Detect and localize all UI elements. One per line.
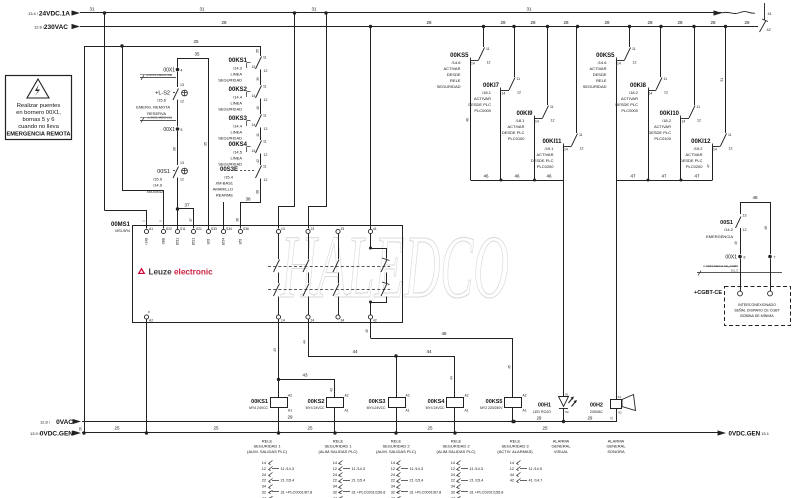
svg-text:00KI12: 00KI12	[691, 139, 711, 145]
svg-text:11: 11	[517, 77, 521, 81]
svg-text:AMARILLO: AMARILLO	[213, 187, 233, 192]
svg-text:LED ROJO: LED ROJO	[533, 410, 551, 414]
svg-text:21: 21	[610, 416, 614, 420]
svg-text:-0BB: -0BB	[162, 238, 166, 245]
svg-text:SEGURIDAD 1: SEGURIDAD 1	[253, 444, 281, 449]
svg-text:DESDE PLC: DESDE PLC	[680, 158, 703, 163]
svg-text:00KS5: 00KS5	[596, 53, 615, 59]
svg-text:LINEA: LINEA	[230, 72, 242, 77]
svg-text:/19.2: /19.2	[694, 146, 704, 151]
svg-text:12: 12	[262, 467, 266, 471]
svg-text:35: 35	[204, 142, 208, 146]
svg-text:w-00X1-MECH CE_CGBT: w-00X1-MECH CE_CGBT	[703, 264, 738, 268]
svg-text:39: 39	[256, 77, 260, 81]
svg-text:34: 34	[451, 485, 455, 489]
svg-text:ACTIVAR: ACTIVAR	[474, 96, 491, 101]
svg-text:51: 51	[720, 78, 724, 82]
svg-text:34: 34	[341, 319, 345, 323]
svg-text:A1: A1	[288, 409, 292, 413]
svg-text:en bornero 00X1,: en bornero 00X1,	[16, 110, 61, 116]
svg-text:34: 34	[333, 485, 337, 489]
svg-text:44: 44	[510, 473, 514, 477]
svg-text:SEGURIDAD: SEGURIDAD	[218, 162, 242, 167]
svg-text:B521: B521	[192, 238, 196, 246]
svg-text:31 +PLC0201/156.8: 31 +PLC0201/156.8	[470, 491, 504, 495]
svg-text:00MS1: 00MS1	[111, 222, 131, 228]
svg-text:PLC0100: PLC0100	[508, 136, 525, 141]
svg-text:RELE: RELE	[596, 78, 607, 83]
svg-text:w-00X1-MECH.WE: w-00X1-MECH.WE	[146, 73, 172, 77]
svg-text:5: 5	[181, 128, 183, 132]
svg-text:11: 11	[486, 47, 490, 51]
svg-text:46: 46	[466, 118, 470, 122]
svg-text:00KS5: 00KS5	[486, 399, 503, 405]
svg-text:31: 31	[526, 7, 532, 12]
svg-text:00KS4: 00KS4	[229, 142, 248, 148]
svg-text:14: 14	[471, 62, 475, 66]
svg-text:28: 28	[221, 20, 227, 25]
svg-text:12: 12	[633, 61, 637, 65]
svg-text:35: 35	[194, 52, 200, 57]
svg-text:DESDE PLC: DESDE PLC	[615, 102, 638, 107]
svg-text:EMERGENCIA: EMERGENCIA	[706, 234, 733, 239]
svg-text:S33: S33	[211, 227, 217, 231]
svg-text:REARME: REARME	[216, 193, 233, 198]
svg-text:00KS3: 00KS3	[229, 116, 248, 122]
svg-text:11: 11	[697, 105, 701, 109]
svg-text:11: 11	[263, 56, 267, 60]
svg-text:12: 12	[729, 147, 733, 151]
svg-text:47: 47	[707, 164, 711, 168]
svg-text:MY4 24VCC: MY4 24VCC	[249, 406, 268, 410]
svg-text:EMERG. REMOTA: EMERG. REMOTA	[136, 105, 170, 110]
svg-text:RELE: RELE	[450, 78, 461, 83]
svg-text:00KS2: 00KS2	[308, 399, 325, 405]
svg-text:11 /14.3: 11 /14.3	[281, 467, 294, 471]
svg-text:31: 31	[89, 7, 95, 12]
svg-text:41: 41	[373, 227, 377, 231]
svg-text:A2: A2	[149, 319, 153, 323]
svg-text:(ALIM.SALIDAS PLC): (ALIM.SALIDAS PLC)	[437, 449, 477, 454]
svg-text:24: 24	[262, 473, 266, 477]
svg-text:A2: A2	[345, 394, 349, 398]
svg-text:00KS1: 00KS1	[251, 399, 268, 405]
svg-text:S22: S22	[166, 227, 172, 231]
svg-text:28: 28	[677, 20, 683, 25]
svg-text:/14.6: /14.6	[598, 60, 608, 65]
svg-text:45: 45	[365, 329, 369, 333]
svg-text:13: 13	[743, 214, 747, 218]
svg-text:31 +PLC0001/67.8: 31 +PLC0001/67.8	[281, 491, 313, 495]
svg-text:00X1: 00X1	[725, 255, 737, 261]
svg-text:EMERGENCIA REMOTA: EMERGENCIA REMOTA	[7, 132, 71, 138]
svg-text:11: 11	[632, 47, 636, 51]
svg-text:12: 12	[180, 178, 184, 182]
svg-text:ACTIVAR: ACTIVAR	[589, 66, 606, 71]
svg-text:48: 48	[764, 226, 768, 230]
svg-text:/14.2: /14.2	[724, 227, 734, 232]
svg-text:SEGURIDAD: SEGURIDAD	[218, 136, 242, 141]
svg-text:ACTIVAR: ACTIVAR	[443, 66, 460, 71]
svg-text:14: 14	[391, 461, 395, 465]
svg-text:31: 31	[311, 7, 317, 12]
svg-text:/18.2: /18.2	[662, 118, 672, 123]
svg-text:14: 14	[617, 62, 621, 66]
svg-text:00H1: 00H1	[538, 403, 551, 409]
svg-text:24VDC.1A: 24VDC.1A	[39, 11, 70, 18]
svg-text:45: 45	[441, 331, 447, 336]
svg-text:ACTIVAR: ACTIVAR	[654, 124, 671, 129]
svg-text:12: 12	[510, 467, 514, 471]
svg-text:13: 13	[180, 161, 184, 165]
svg-text:00X1: 00X1	[163, 127, 175, 133]
svg-text:bornas 5 y 6: bornas 5 y 6	[23, 117, 55, 123]
svg-text:MY4 24VCC: MY4 24VCC	[426, 406, 445, 410]
svg-text:43: 43	[330, 388, 334, 392]
svg-text:38: 38	[256, 190, 260, 194]
svg-text:28: 28	[500, 20, 506, 25]
svg-text:BOBINA DE MÍNIMA: BOBINA DE MÍNIMA	[740, 314, 774, 318]
svg-text:PLC0200: PLC0200	[686, 164, 703, 169]
svg-text:VISUAL: VISUAL	[554, 449, 569, 454]
svg-text:LINEA: LINEA	[230, 130, 242, 135]
svg-text:21 /15.4: 21 /15.4	[281, 479, 295, 483]
svg-text:A2: A2	[288, 394, 292, 398]
svg-text:MY4 24VCC: MY4 24VCC	[306, 406, 325, 410]
svg-text:25: 25	[307, 426, 313, 431]
svg-text:cuando no lleva: cuando no lleva	[18, 124, 59, 130]
svg-text:43: 43	[273, 348, 277, 352]
svg-text:33: 33	[341, 227, 345, 231]
svg-text:11 /14.3: 11 /14.3	[470, 467, 483, 471]
svg-text:0VAC: 0VAC	[56, 419, 73, 426]
svg-text:00KS3: 00KS3	[369, 399, 386, 405]
svg-text:+L-S2: +L-S2	[155, 91, 170, 97]
svg-text:00KI8: 00KI8	[630, 83, 647, 89]
svg-text:44: 44	[450, 376, 454, 380]
svg-text:12: 12	[264, 127, 268, 131]
svg-text:LINEA: LINEA	[230, 101, 242, 106]
svg-text:230VAC: 230VAC	[44, 24, 68, 31]
svg-text:14: 14	[535, 120, 539, 124]
svg-text:00KS2: 00KS2	[229, 87, 248, 93]
svg-text:12.8 /: 12.8 /	[40, 420, 51, 425]
svg-text:14: 14	[564, 148, 568, 152]
svg-text:PLC0000: PLC0000	[474, 108, 491, 113]
svg-text:/14.4: /14.4	[233, 124, 243, 129]
svg-text:11: 11	[579, 133, 583, 137]
svg-text:24: 24	[333, 473, 337, 477]
svg-text:X2: X2	[618, 411, 622, 415]
svg-text:/15.9: /15.9	[153, 177, 163, 182]
svg-text:25: 25	[213, 426, 219, 431]
svg-text:13: 13	[180, 83, 184, 87]
svg-text:14: 14	[713, 148, 717, 152]
svg-text:SEGURIDAD: SEGURIDAD	[437, 84, 461, 89]
svg-text:32: 32	[391, 491, 395, 495]
svg-text:electronic: electronic	[174, 268, 213, 277]
svg-text:00KS1: 00KS1	[229, 58, 248, 64]
svg-text:22: 22	[333, 479, 337, 483]
svg-text:SEGURIDAD 2: SEGURIDAD 2	[382, 444, 410, 449]
svg-text:13: 13	[281, 227, 285, 231]
svg-text:A2: A2	[406, 394, 410, 398]
svg-text:42: 42	[256, 159, 260, 163]
svg-text:26: 26	[79, 427, 83, 431]
svg-text:A1: A1	[345, 409, 349, 413]
svg-text:12: 12	[264, 98, 268, 102]
svg-text:41 /14.7: 41 /14.7	[529, 479, 543, 483]
svg-text:DESDE: DESDE	[593, 72, 607, 77]
svg-text:42: 42	[373, 319, 377, 323]
svg-text:28: 28	[710, 20, 716, 25]
svg-text:11: 11	[728, 133, 732, 137]
svg-text:A1: A1	[523, 409, 527, 413]
svg-text:14: 14	[333, 461, 337, 465]
svg-text:12: 12	[580, 147, 584, 151]
svg-text:12: 12	[743, 228, 747, 232]
svg-text:00KI7: 00KI7	[483, 83, 500, 89]
svg-text:/19.1: /19.1	[545, 146, 555, 151]
svg-text:/14.3: /14.3	[233, 66, 243, 71]
svg-text:11: 11	[263, 165, 267, 169]
svg-text:29: 29	[588, 416, 593, 421]
svg-text:PLC0000: PLC0000	[621, 108, 638, 113]
svg-text:HALEDCO: HALEDCO	[280, 218, 509, 317]
svg-text:/14.9: /14.9	[153, 183, 163, 188]
svg-text:Realizar puentes: Realizar puentes	[17, 103, 61, 109]
svg-text:32: 32	[333, 491, 337, 495]
svg-text:00KI10: 00KI10	[660, 111, 680, 117]
svg-text:46: 46	[546, 174, 552, 179]
svg-text:12: 12	[391, 467, 395, 471]
svg-text:42: 42	[767, 28, 771, 32]
svg-text:14: 14	[510, 461, 514, 465]
svg-text:12: 12	[697, 119, 701, 123]
svg-text:SEGURIDAD: SEGURIDAD	[583, 84, 607, 89]
svg-text:44: 44	[426, 349, 432, 354]
svg-text:12: 12	[333, 467, 337, 471]
svg-text:14: 14	[502, 92, 506, 96]
svg-text:+CGBT-CE: +CGBT-CE	[694, 290, 722, 296]
svg-text:24: 24	[451, 473, 455, 477]
svg-text:25: 25	[114, 426, 120, 431]
svg-text:GENERAL: GENERAL	[551, 444, 571, 449]
svg-text:46: 46	[483, 174, 489, 179]
svg-text:37: 37	[184, 203, 190, 208]
svg-text:44: 44	[352, 349, 358, 354]
svg-text:37: 37	[189, 218, 193, 222]
svg-text:/15.4: /15.4	[224, 175, 234, 180]
svg-text:PLC0100: PLC0100	[654, 136, 671, 141]
svg-text:12: 12	[487, 61, 491, 65]
svg-text:LINEA: LINEA	[230, 156, 242, 161]
svg-text:24: 24	[311, 319, 315, 323]
svg-text:28: 28	[604, 20, 610, 25]
svg-text:SONORA: SONORA	[607, 449, 625, 454]
svg-text:B33: B33	[207, 238, 211, 244]
svg-text:38: 38	[236, 218, 240, 222]
svg-text:22: 22	[262, 479, 266, 483]
svg-text:0VDC.GEN: 0VDC.GEN	[40, 431, 74, 438]
svg-text:B53: B53	[239, 238, 243, 244]
svg-text:48: 48	[752, 195, 758, 200]
svg-text:22: 22	[391, 479, 395, 483]
svg-text:S36: S36	[243, 227, 249, 231]
svg-text:14: 14	[281, 319, 285, 323]
svg-text:11: 11	[550, 105, 554, 109]
svg-text:Leuze: Leuze	[149, 268, 173, 277]
svg-text:(ACTIV. ALARMAS): (ACTIV. ALARMAS)	[497, 449, 533, 454]
svg-text:13.4 /: 13.4 /	[28, 11, 39, 16]
svg-text:(ALIM. SALIDAS PLC): (ALIM. SALIDAS PLC)	[247, 449, 288, 454]
svg-text:35: 35	[256, 49, 260, 53]
svg-text:/14.6: /14.6	[452, 60, 462, 65]
svg-text:43: 43	[302, 373, 308, 378]
svg-text:28: 28	[744, 20, 750, 25]
svg-text:14: 14	[252, 149, 256, 153]
svg-text:11 /14.5: 11 /14.5	[529, 467, 542, 471]
svg-text:4: 4	[181, 69, 183, 73]
svg-text:0VDC.GEN: 0VDC.GEN	[729, 431, 761, 438]
svg-text:32: 32	[451, 491, 455, 495]
svg-text:12: 12	[517, 91, 521, 95]
svg-text:GENERAL: GENERAL	[606, 444, 626, 449]
svg-text:49: 49	[734, 241, 738, 245]
svg-text:/18.1: /18.1	[516, 118, 526, 123]
svg-text:/ 15.1: / 15.1	[759, 431, 770, 436]
svg-text:S34: S34	[226, 227, 232, 231]
svg-text:00S3E: 00S3E	[220, 167, 238, 173]
svg-text:(ALIM.SALIDAS PLC): (ALIM.SALIDAS PLC)	[319, 449, 359, 454]
svg-text:A1: A1	[406, 409, 410, 413]
svg-text:A2: A2	[523, 394, 527, 398]
svg-text:31: 31	[199, 7, 205, 12]
svg-text:B534: B534	[222, 238, 226, 246]
svg-text:A2: A2	[465, 394, 469, 398]
svg-text:14: 14	[682, 120, 686, 124]
svg-text:12: 12	[551, 119, 555, 123]
svg-text:12: 12	[264, 153, 268, 157]
svg-text:ACTIVAR: ACTIVAR	[507, 124, 524, 129]
svg-text:S21: S21	[196, 227, 202, 231]
svg-text:14: 14	[252, 65, 256, 69]
svg-text:40: 40	[256, 106, 260, 110]
svg-text:42: 42	[510, 479, 514, 483]
svg-text:/18.1: /18.1	[482, 90, 492, 95]
svg-text:25: 25	[542, 426, 548, 431]
svg-text:12: 12	[264, 178, 268, 182]
svg-text:13.9 /: 13.9 /	[30, 431, 41, 436]
svg-text:45: 45	[508, 365, 512, 369]
svg-text:34: 34	[262, 485, 266, 489]
svg-text:11: 11	[263, 85, 267, 89]
svg-text:/18.2: /18.2	[629, 90, 639, 95]
svg-text:34: 34	[391, 485, 395, 489]
svg-text:INTERCONEXIONADO: INTERCONEXIONADO	[738, 303, 776, 307]
svg-text:ACTIVAR: ACTIVAR	[621, 96, 638, 101]
svg-text:44: 44	[303, 340, 307, 344]
svg-text:DESDE PLC: DESDE PLC	[502, 130, 525, 135]
svg-text:31 +PLC0001/67.8: 31 +PLC0001/67.8	[410, 491, 442, 495]
svg-text:14: 14	[252, 123, 256, 127]
svg-text:XM-BAS1: XM-BAS1	[215, 181, 233, 186]
svg-text:47: 47	[661, 174, 667, 179]
svg-text:X1: X1	[565, 393, 569, 397]
svg-text:00KS5: 00KS5	[450, 53, 469, 59]
svg-text:24: 24	[391, 473, 395, 477]
svg-text:DESDE PLC: DESDE PLC	[648, 130, 671, 135]
svg-text:SEÑAL DISPARO CE CGBT: SEÑAL DISPARO CE CGBT	[734, 308, 780, 313]
svg-text:25: 25	[193, 39, 199, 44]
svg-text:SEGURIDAD 1: SEGURIDAD 1	[324, 444, 352, 449]
svg-text:41: 41	[768, 12, 772, 16]
svg-text:PLC0200: PLC0200	[537, 164, 554, 169]
svg-text:36: 36	[173, 147, 177, 151]
svg-text:X1: X1	[618, 395, 622, 399]
svg-text:28: 28	[563, 20, 569, 25]
svg-text:25: 25	[427, 426, 433, 431]
svg-text:7: 7	[774, 256, 776, 260]
svg-text:230VAC: 230VAC	[590, 410, 604, 414]
svg-text:ACTIVAR: ACTIVAR	[536, 152, 553, 157]
svg-text:29: 29	[287, 415, 293, 420]
svg-text:11: 11	[263, 114, 267, 118]
svg-text:00S1: 00S1	[157, 169, 170, 175]
svg-text:23: 23	[311, 227, 315, 231]
svg-text:38: 38	[245, 197, 251, 202]
svg-text:(ALIM. SALIDAS PLC): (ALIM. SALIDAS PLC)	[376, 449, 417, 454]
svg-text:21 /15.4: 21 /15.4	[352, 479, 366, 483]
svg-text:31 +PLC0201/156.8: 31 +PLC0201/156.8	[352, 491, 386, 495]
svg-text:MSI-SR4: MSI-SR4	[115, 229, 130, 233]
svg-text:ACTIVAR: ACTIVAR	[685, 152, 702, 157]
svg-text:A1: A1	[149, 227, 153, 231]
svg-text:14: 14	[649, 92, 653, 96]
svg-text:47: 47	[630, 174, 636, 179]
svg-text:00KS4: 00KS4	[428, 399, 446, 405]
svg-text:12: 12	[264, 69, 268, 73]
svg-text:A1: A1	[465, 409, 469, 413]
svg-text:21 /15.4: 21 /15.4	[470, 479, 484, 483]
svg-text:00KI9: 00KI9	[516, 111, 533, 117]
svg-text:14: 14	[252, 94, 256, 98]
svg-text:B511: B511	[176, 238, 180, 245]
svg-text:11 /14.3: 11 /14.3	[352, 467, 365, 471]
svg-text:S11: S11	[180, 227, 186, 231]
svg-text:47: 47	[694, 174, 700, 179]
svg-text:11: 11	[263, 140, 267, 144]
svg-text:46: 46	[514, 174, 520, 179]
svg-text:DESDE: DESDE	[447, 72, 461, 77]
svg-text:29: 29	[537, 416, 542, 421]
svg-text:28: 28	[426, 20, 432, 25]
svg-text:XM-BIS42: XM-BIS42	[147, 190, 163, 194]
svg-text:12: 12	[180, 100, 184, 104]
svg-text:/14.4: /14.4	[233, 95, 243, 100]
svg-text:32: 32	[262, 491, 266, 495]
svg-text:00KI11: 00KI11	[542, 139, 562, 145]
svg-text:3x1.5: 3x1.5	[731, 269, 739, 273]
svg-text:12: 12	[664, 91, 668, 95]
svg-text:MY4.24VCC: MY4.24VCC	[367, 406, 386, 410]
svg-text:DESDE PLC: DESDE PLC	[468, 102, 491, 107]
svg-text:/14.5: /14.5	[233, 150, 243, 155]
svg-text:00H2: 00H2	[590, 403, 603, 409]
svg-text:SEGURIDAD 3: SEGURIDAD 3	[501, 444, 529, 449]
svg-text:14: 14	[451, 461, 455, 465]
svg-text:12.8 /: 12.8 /	[34, 25, 45, 30]
